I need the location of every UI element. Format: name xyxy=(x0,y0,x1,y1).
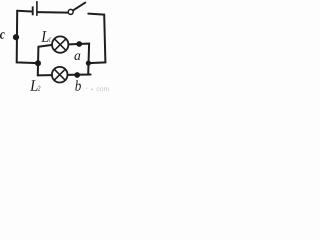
wire battery to switch xyxy=(38,11,68,14)
label a xyxy=(74,54,80,61)
battery B1 xyxy=(33,1,37,16)
wire top-left lead xyxy=(17,10,31,13)
wire left vertical xyxy=(17,11,38,63)
wire L1 left lead xyxy=(38,45,52,47)
watermark xyxy=(86,87,109,91)
wire right vertical xyxy=(88,15,105,64)
node b xyxy=(74,72,80,78)
wire L1 right lead xyxy=(68,44,89,75)
switch S1 xyxy=(68,3,85,15)
lamp L1 xyxy=(52,36,68,52)
junction D1 xyxy=(86,61,91,66)
node a xyxy=(76,41,82,47)
label L1 xyxy=(41,31,48,42)
wire switch right lead xyxy=(88,14,104,15)
label b xyxy=(75,80,81,90)
wire L2 left lead xyxy=(38,74,52,76)
wire middle riser xyxy=(37,47,40,76)
label L2 xyxy=(30,80,38,91)
label c xyxy=(0,32,5,39)
node c xyxy=(13,34,19,40)
wire L2 right lead xyxy=(68,74,91,76)
lamp L2 xyxy=(52,67,68,83)
junction J2 xyxy=(35,60,41,66)
